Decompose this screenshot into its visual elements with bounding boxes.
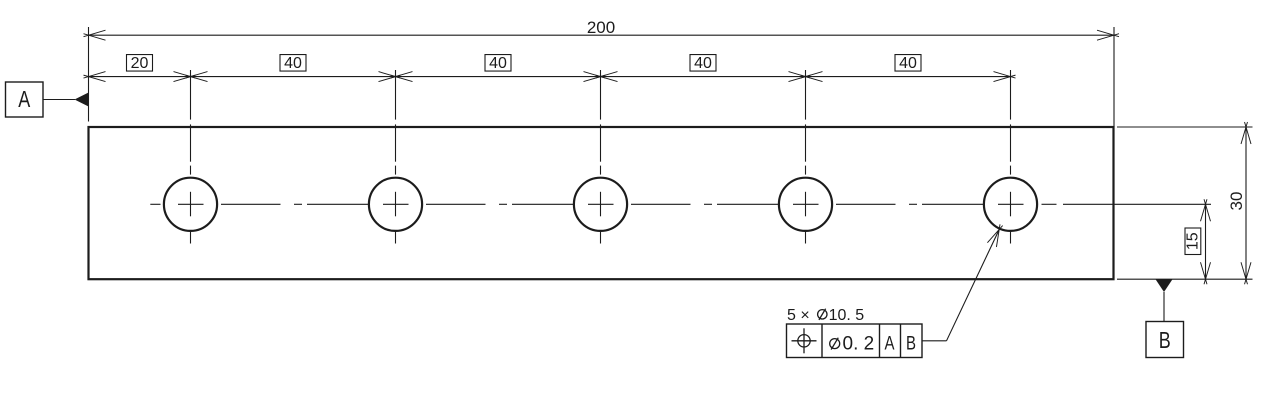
plate outline [89, 127, 1114, 279]
diameter symbol of 0.2 [830, 339, 840, 349]
hole 3 circle [574, 178, 627, 231]
feature control frame boxes [787, 324, 923, 358]
left extension line (datum A edge) [88, 27, 90, 122]
bottom extension line for 30 / datum B edge [1117, 278, 1253, 280]
svg-text:B: B [906, 334, 916, 355]
svg-text:40: 40 [899, 55, 917, 72]
svg-text:5 ×: 5 × [787, 307, 810, 324]
dimension line 200 [89, 34, 1115, 36]
boxed dimension 40 (3) [690, 55, 716, 72]
diameter symbol of 10.5 [818, 310, 827, 319]
horizontal centerline through holes (dash-dot) [150, 203, 1211, 205]
svg-text:40: 40 [694, 55, 712, 72]
leader arrowhead at hole 5 [996, 224, 1000, 247]
hole 2 circle [369, 178, 422, 231]
hole 5 vertical centerline / extension line [1010, 70, 1012, 244]
right extension line [1113, 27, 1115, 127]
svg-text:15: 15 [1185, 232, 1202, 250]
datum A filled triangle [75, 93, 89, 107]
arrowheads dimension 15 [1201, 199, 1211, 284]
hole 1 vertical centerline / extension line [190, 70, 192, 244]
svg-text:40: 40 [489, 55, 507, 72]
leader line from frame [922, 340, 947, 342]
boxed dimension 40 (1) [280, 55, 306, 72]
arrowheads dimension 200 [84, 30, 1120, 40]
boxed dimension 40 (2) [485, 55, 511, 72]
datum A leader line [43, 99, 75, 101]
svg-text:40: 40 [284, 55, 302, 72]
svg-text:B: B [1159, 327, 1171, 353]
svg-text:30: 30 [1227, 192, 1246, 211]
hole 3 vertical centerline / extension line [600, 70, 602, 244]
hole 5 circle [984, 178, 1037, 231]
hole 4 circle [779, 178, 832, 231]
hole 4 vertical centerline / extension line [805, 70, 807, 244]
boxed dimension 15 (rotated) [1185, 228, 1202, 255]
boxed dimension 40 (4) [895, 55, 921, 72]
chain dimension arrowheads [84, 72, 1016, 82]
svg-text:200: 200 [587, 18, 615, 37]
datum B frame [1146, 322, 1184, 358]
svg-text:10. 5: 10. 5 [829, 307, 865, 324]
svg-text:0. 2: 0. 2 [843, 334, 875, 355]
dimension line 30 [1245, 127, 1247, 279]
svg-text:20: 20 [131, 55, 149, 72]
svg-text:A: A [885, 334, 895, 355]
chain dimension line [89, 76, 1011, 78]
hole 1 circle [164, 178, 217, 231]
position tolerance symbol [792, 328, 817, 353]
hole 2 vertical centerline / extension line [395, 70, 397, 244]
dimension line 15 [1205, 204, 1207, 279]
datum B filled triangle [1156, 279, 1173, 292]
top extension line for 30 [1117, 126, 1253, 128]
svg-text:A: A [18, 86, 31, 112]
arrowheads dimension 30 [1241, 122, 1251, 284]
datum B leader line [1163, 292, 1165, 322]
boxed dimension 20 [127, 55, 153, 72]
datum A frame [6, 82, 44, 117]
